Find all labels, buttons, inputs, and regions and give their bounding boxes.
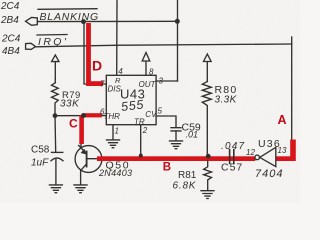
- wire 555 out pin 3 horizontal: [156, 80, 178, 82]
- transistor Q50 base bar: [86, 152, 88, 167]
- resistor R79: [52, 83, 59, 116]
- red highlight wire C (THR node down to Q50 emitter): [84, 113, 102, 117]
- overline of BLANKING: [38, 8, 97, 11]
- wire vertical from blanking junction to 555 out: [177, 0, 179, 81]
- junction dot R80/C57 node: [206, 154, 211, 159]
- junction dot THR/Q50 emitter: [81, 113, 86, 118]
- resistor R81: [204, 161, 212, 191]
- capacitor C59: [171, 128, 181, 131]
- ground (555 pin 1): [107, 140, 120, 148]
- transistor Q2 = Q50 circle: [75, 146, 102, 173]
- wire BLANKING horizontal: [37, 20, 177, 22]
- transistor Q50 collector lead (down to ground): [81, 164, 87, 185]
- ground (C58): [49, 185, 62, 193]
- inverter U36 triangle (points left): [260, 147, 276, 166]
- wire node to C58: [54, 116, 57, 152]
- wire under red B (base to inverter): [103, 158, 292, 160]
- red highlight wire B (base node across to inverter, and up right side): [97, 156, 255, 161]
- wire vertical to 555 pin 4 reset: [116, 0, 118, 75]
- connector flag BLANKING (points left): [26, 17, 38, 25]
- capacitor C57 plates (over red wire B): [230, 150, 234, 164]
- junction dot blanking/555 out: [175, 19, 180, 24]
- transistor Q50 emitter lead (up): [80, 116, 82, 147]
- junction dot pin2/node B: [139, 154, 143, 158]
- ground (C59): [170, 141, 183, 149]
- junction dot R79/THR: [53, 113, 58, 118]
- wire 555 pin 2 TR down to node B: [140, 125, 142, 159]
- wire blanking to DIS (under red D): [84, 22, 106, 84]
- op-amp/timer U43 555 body: [106, 75, 156, 124]
- wire THR horizontal node: [55, 115, 106, 117]
- red highlight wire D (blanking down to DIS pin 7): [86, 23, 91, 86]
- capacitor C58 (electrolytic): [52, 151, 63, 153]
- overline of IRQ': [37, 34, 67, 37]
- ground (Q50 collector): [74, 185, 87, 193]
- wire IRQ horizontal: [36, 44, 292, 47]
- junction dot blanking/D: [81, 19, 86, 24]
- wire 555 pin 5 CV to C59: [156, 116, 176, 127]
- power arrow above R80: [204, 54, 212, 82]
- wire right vertical (IRQ to inverter input): [291, 37, 293, 140]
- connector flag IRQ (points right): [26, 43, 36, 49]
- ground (R81): [201, 191, 214, 199]
- power arrow above pin 8: [142, 53, 150, 76]
- wire 555 pin 1 to ground: [112, 125, 114, 140]
- transistor Q50 emitter arrowhead (PNP): [81, 149, 87, 155]
- resistor R80: [202, 82, 211, 157]
- inverter U36 bubble (output pin 12): [255, 155, 260, 160]
- power arrow above R79: [52, 55, 59, 79]
- scan noise overlay: [0, 0, 1, 1]
- transistor Q50 base lead (right): [87, 158, 103, 160]
